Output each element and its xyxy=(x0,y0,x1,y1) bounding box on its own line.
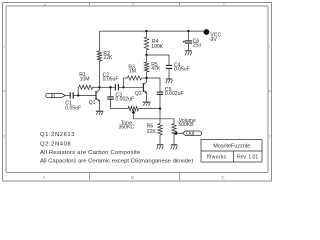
transistor Q2 xyxy=(135,78,147,102)
resistor R5 xyxy=(144,55,161,78)
wire C1 to Q1 base xyxy=(74,94,96,96)
svg-text:Q2:2N408: Q2:2N408 xyxy=(40,141,71,147)
svg-text:0.002uF: 0.002uF xyxy=(165,91,184,97)
svg-text:2: 2 xyxy=(269,135,271,139)
frame zone letters xyxy=(3,3,271,180)
capacitor C5 xyxy=(157,87,184,109)
node Q1 collector xyxy=(98,86,100,88)
title block xyxy=(201,140,262,163)
svg-text:0.05uF: 0.05uF xyxy=(174,66,190,72)
resistor R2 xyxy=(97,31,113,87)
svg-text:-9V: -9V xyxy=(209,37,218,43)
wire N2 to C5 xyxy=(147,78,161,92)
svg-text:47K: 47K xyxy=(151,66,161,72)
node rail R4 xyxy=(145,30,147,32)
svg-text:0.002uF: 0.002uF xyxy=(115,97,134,103)
svg-text:0.05uF: 0.05uF xyxy=(103,76,119,82)
resistor R3 xyxy=(123,65,146,88)
svg-text:In: In xyxy=(51,93,55,99)
capacitor C3 xyxy=(107,87,134,108)
svg-text:22K: 22K xyxy=(147,129,157,135)
ground under Q1 xyxy=(96,111,104,115)
svg-text:1: 1 xyxy=(3,45,5,49)
svg-text:B: B xyxy=(131,175,134,180)
svg-text:22K: 22K xyxy=(103,55,113,61)
node R3 tap xyxy=(122,86,124,88)
svg-text:350KC: 350KC xyxy=(119,125,135,131)
node at C1/R1 junction xyxy=(77,94,79,96)
resistor R6 xyxy=(147,109,163,145)
input tag In xyxy=(46,93,65,99)
capacitor C4 xyxy=(166,62,190,78)
svg-text:500KB: 500KB xyxy=(178,122,194,128)
wire N1 to C4 xyxy=(147,55,170,65)
wire Tone wiper to Volume top xyxy=(133,119,174,124)
svg-text:25u: 25u xyxy=(193,43,202,49)
ground under Volume xyxy=(171,145,178,150)
svg-text:2: 2 xyxy=(3,135,5,139)
capacitor C2 xyxy=(103,72,119,90)
svg-text:0.05uF: 0.05uF xyxy=(65,106,81,112)
frame zone ticks xyxy=(3,3,272,182)
svg-text:100K: 100K xyxy=(151,44,163,50)
ground under Q2 xyxy=(143,102,151,106)
resistor R4 xyxy=(144,31,163,55)
wire In to C1 xyxy=(65,94,70,96)
svg-text:fftworks: fftworks xyxy=(207,154,227,160)
svg-text:All Capacitors are Ceramic exc: All Capacitors are Ceramic except C6(man… xyxy=(40,158,193,164)
supply symbol VCC -9V xyxy=(204,29,222,43)
frame inner border xyxy=(6,6,268,173)
svg-text:1M: 1M xyxy=(129,69,136,75)
svg-text:MosriteFuzzrite: MosriteFuzzrite xyxy=(213,144,250,150)
wire Tone to R6 node xyxy=(139,108,160,110)
notes text xyxy=(40,132,193,164)
svg-text:10M: 10M xyxy=(80,77,90,83)
capacitor C6 polarized xyxy=(183,31,202,50)
node N1 R4/R5/C4 xyxy=(145,54,147,56)
svg-text:All Resistors are Carbon Compo: All Resistors are Carbon Composite xyxy=(40,150,141,156)
VCC rail wire xyxy=(100,30,204,32)
resistor R1 xyxy=(78,72,99,89)
potentiometer Volume 500KB xyxy=(172,118,196,144)
wire bus C3 to Tone xyxy=(111,108,129,110)
output tag Out xyxy=(183,131,202,137)
svg-text:Q2: Q2 xyxy=(135,91,142,97)
wire node up to R1 xyxy=(77,87,79,95)
svg-text:1: 1 xyxy=(269,45,271,49)
wire C2 to Q2 base xyxy=(119,86,143,88)
svg-text:Rev. 1.01: Rev. 1.01 xyxy=(237,154,258,160)
svg-text:Out: Out xyxy=(186,131,195,137)
potentiometer Tone 350KC xyxy=(119,106,139,130)
svg-text:Q1: Q1 xyxy=(89,100,96,106)
ground under R6 xyxy=(157,145,164,150)
node C3 tap xyxy=(109,86,111,88)
frame outer border xyxy=(3,3,272,182)
ground under C4 xyxy=(166,79,173,83)
transistor Q1 xyxy=(89,87,100,111)
svg-text:Q1:2N2613: Q1:2N2613 xyxy=(40,132,75,138)
node rail C6 xyxy=(187,30,189,32)
node N2 Q2 collector xyxy=(145,77,147,79)
svg-text:B: B xyxy=(132,3,134,7)
node Tone/C5/R6 xyxy=(159,108,161,110)
capacitor C1 xyxy=(65,92,81,111)
ground under C6 xyxy=(185,51,192,56)
svg-text:A: A xyxy=(42,175,45,180)
wire collector line Q1 to C2 xyxy=(100,86,115,88)
